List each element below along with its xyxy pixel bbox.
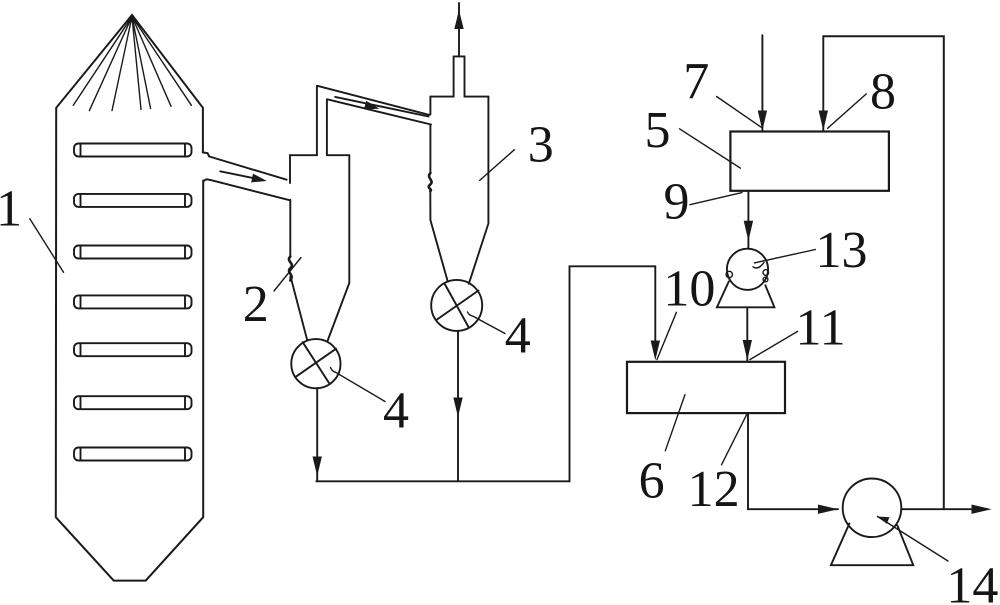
label 4 left <box>331 368 410 440</box>
label 14 <box>878 517 999 605</box>
svg-text:3: 3 <box>528 117 554 174</box>
tower slot 5 <box>74 343 192 356</box>
label 8 <box>828 64 896 129</box>
tower slot 7 <box>74 448 192 461</box>
cyclone separator 3 <box>430 56 488 283</box>
pump outlet line with right arrow <box>901 505 991 514</box>
duct tower to cyclone 2 <box>203 157 289 201</box>
label 6 <box>639 395 685 510</box>
tower apex blob <box>127 14 137 22</box>
pipe 12 from box 6 to pump <box>748 413 838 509</box>
label 1 <box>0 181 64 273</box>
label 7 <box>683 53 761 127</box>
fan 13 <box>717 249 775 308</box>
svg-text:2: 2 <box>243 276 269 333</box>
label 13 <box>753 222 868 279</box>
arrow into pump 14 <box>818 505 838 514</box>
label 9 <box>664 174 742 231</box>
svg-text:9: 9 <box>664 174 690 231</box>
arrow 10 head into box 6 <box>651 341 660 361</box>
collector line to riser <box>316 266 655 481</box>
svg-text:13: 13 <box>816 222 868 279</box>
svg-text:8: 8 <box>870 64 896 121</box>
svg-text:10: 10 <box>663 261 715 318</box>
label 3 <box>480 117 554 181</box>
svg-text:7: 7 <box>683 53 709 110</box>
rotary valve 4 (right) <box>431 280 482 331</box>
duct cyclone 2 to cyclone 3 <box>317 86 431 155</box>
recycle line 8 with arrow into box 5 <box>819 36 828 131</box>
svg-text:1: 1 <box>0 181 22 238</box>
drying tower 1 body outline <box>56 15 210 581</box>
label 4 right <box>468 308 531 365</box>
label 11 <box>750 300 846 360</box>
mixing box 6 <box>627 362 785 413</box>
cyclone 3 gas outlet with up arrow <box>454 3 463 56</box>
rotary valve 4 (left) <box>291 339 340 388</box>
reaction box 5 <box>730 132 889 191</box>
label 10 <box>657 261 715 360</box>
svg-text:14: 14 <box>946 558 998 605</box>
tower slot 2 <box>74 194 192 207</box>
recycle loop line (top and right) <box>823 36 944 509</box>
svg-text:5: 5 <box>645 102 671 159</box>
svg-text:11: 11 <box>796 300 846 357</box>
svg-text:4: 4 <box>383 383 409 440</box>
cyclone 3 wall break mark <box>429 173 432 191</box>
label 2 <box>243 258 301 334</box>
tower cone rays <box>73 17 191 111</box>
downpipe from right valve with arrow <box>453 331 462 482</box>
tower slot 1 <box>74 144 192 157</box>
label 12 <box>688 414 747 518</box>
cyclone separator 2 <box>290 155 350 341</box>
label 5 <box>645 102 741 168</box>
line fan 13 to box 6 with arrow 11 <box>743 307 752 361</box>
pump 14 <box>831 479 913 566</box>
downpipe from left valve with arrow <box>313 388 322 481</box>
tower slot 4 <box>74 295 192 308</box>
tower slot 6 <box>74 396 192 409</box>
svg-text:12: 12 <box>688 461 740 518</box>
line box5 to fan 13 with arrow 9 <box>744 191 753 248</box>
svg-text:6: 6 <box>639 453 665 510</box>
svg-text:4: 4 <box>505 308 531 365</box>
feed line 7 with arrow into box 5 <box>758 35 767 131</box>
cyclone 2 wall break mark <box>289 257 292 281</box>
tower slot 3 <box>74 246 192 259</box>
